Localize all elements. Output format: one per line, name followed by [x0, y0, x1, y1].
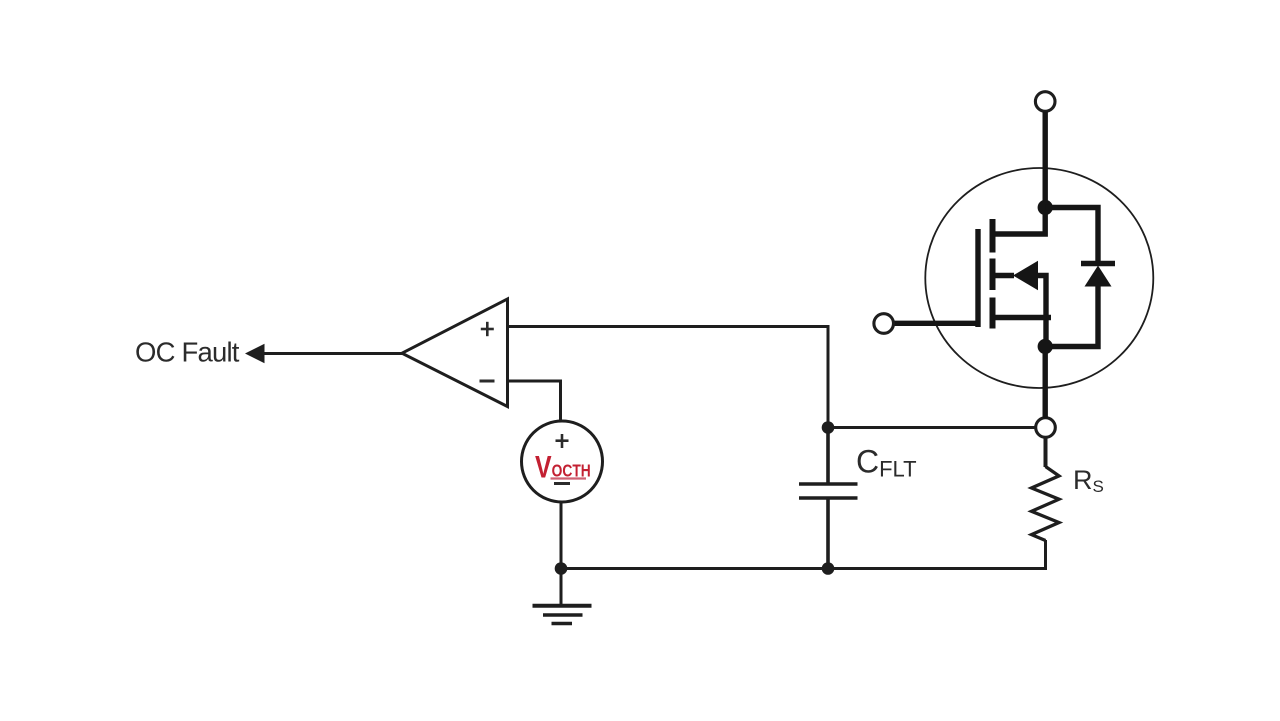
wire: bottom rail: [561, 567, 1046, 570]
terminal: drain open circle (top): [1035, 92, 1055, 112]
svg-text:OC Fault: OC Fault: [135, 337, 240, 368]
wire: comparator output to arrow: [254, 352, 403, 355]
wire: + input from comparator to capacitor node: [508, 327, 829, 425]
gate bar: [975, 229, 980, 327]
label VOCTH (red): [535, 450, 591, 486]
gate lead: [893, 321, 978, 326]
arrowhead at OC Fault: [245, 344, 265, 363]
wire: source to sense terminal: [1042, 347, 1047, 419]
ground: [533, 606, 592, 624]
node: source junction dot: [1038, 339, 1053, 354]
drain lead: [990, 208, 1045, 235]
node: sense node open terminal: [1036, 418, 1056, 438]
diode cathode bar: [1081, 261, 1115, 266]
op-amp comparator U1: [402, 299, 508, 407]
wire: down to ground: [560, 569, 563, 606]
node: junction dot at capacitor top: [822, 421, 835, 434]
resistor RS: [1032, 467, 1060, 541]
minus symbol on comparator - input: [480, 380, 495, 383]
capacitor CFLT: [799, 428, 858, 569]
red underline under OCTH: [551, 477, 587, 479]
wire: sense node to resistor: [1044, 437, 1048, 467]
wire: drain terminal to MOSFET: [1042, 112, 1047, 208]
wire: VOCTH bottom to ground node: [560, 502, 563, 568]
channel segment top: [990, 219, 996, 253]
wire: - input from comparator down to VOCTH source: [508, 381, 561, 422]
body arrow (points left): [1013, 261, 1038, 291]
voltage source VOCTH: [522, 421, 603, 502]
source row to vertical: [1036, 276, 1046, 347]
diode triangle: [1085, 266, 1112, 287]
channel segment middle: [990, 259, 996, 291]
node: drain junction dot: [1038, 200, 1053, 215]
source lead: [990, 315, 1051, 320]
svg-text:CFLT: CFLT: [856, 444, 917, 482]
wire: resistor bottom to rail: [1044, 540, 1047, 570]
svg-text:RS: RS: [1073, 465, 1104, 496]
terminal: gate open circle: [874, 314, 894, 334]
plus symbol on comparator + input: [481, 322, 494, 336]
wire: capacitor node to sense node: [828, 426, 1036, 429]
node: junction dot at VOCTH / ground: [555, 562, 568, 575]
channel segment bottom: [990, 298, 996, 329]
body diode branch wires: [1045, 208, 1098, 265]
minus symbol inside VOCTH: [554, 482, 570, 485]
plus symbol inside VOCTH: [556, 434, 569, 448]
node: junction dot at capacitor bottom: [822, 562, 835, 575]
transistor Q1: body circle: [925, 168, 1153, 388]
body arrow lead: [993, 273, 1015, 278]
